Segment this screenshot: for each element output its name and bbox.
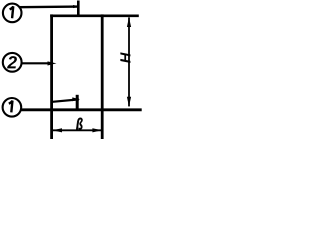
body right edge [101,14,104,139]
dimension B arrow right [92,128,102,132]
body bottom edge [22,108,142,111]
leader arrow balloon 1 top [73,5,80,8]
dimension B arrow left [52,128,62,132]
dimension H line [128,17,130,106]
balloon 1 top circle [3,4,22,23]
leader wire balloon 2 [22,62,52,64]
balloon 1 bottom circle [3,98,22,117]
dimension H label [120,52,130,63]
body top edge [50,14,139,17]
leader arrow balloon 1 bottom [72,97,80,101]
dimension B line [53,129,102,131]
body left edge [50,14,53,139]
balloon 2 circle [3,53,22,72]
balloon 1 top digit [10,6,14,18]
leader wire balloon 1 top [19,5,80,8]
balloon 1 bottom digit [9,101,13,113]
balloon 2 digit [7,56,17,68]
dimension B label [76,118,82,130]
leader wire balloon 1 bottom inner segment [53,99,79,101]
bottom lead dash [76,95,79,109]
dimension H arrow bottom [127,97,131,107]
dimension H arrow top [127,17,131,27]
leader arrow balloon 2 [48,61,57,65]
top lead dash [77,1,80,16]
